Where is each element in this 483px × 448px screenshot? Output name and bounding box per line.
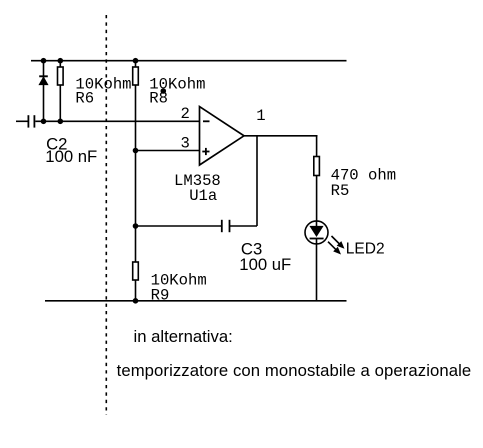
resistor R9: [133, 262, 139, 301]
wire R5 branch vertical: [316, 136, 318, 157]
svg-text:R6: R6: [75, 90, 94, 108]
resistor R6: [58, 61, 64, 122]
wire C2 lead: [16, 120, 28, 122]
svg-text:1: 1: [256, 107, 265, 125]
LED arrows: [328, 236, 345, 255]
diode D1: [39, 61, 48, 122]
svg-text:100 uF: 100 uF: [239, 255, 291, 274]
svg-text:2: 2: [181, 105, 190, 123]
wire feedback vertical: [256, 136, 258, 226]
resistor R8: [133, 61, 139, 262]
svg-text:R5: R5: [331, 182, 350, 200]
svg-text:100 nF: 100 nF: [45, 147, 97, 166]
svg-text:U1a: U1a: [189, 187, 217, 205]
svg-text:in alternativa:: in alternativa:: [134, 327, 233, 346]
svg-text:temporizzatore con monostabile: temporizzatore con monostabile a operazi…: [117, 361, 472, 380]
LED LED2: [305, 221, 328, 244]
wire op-amp output: [244, 135, 318, 137]
wire pin2 line: [35, 120, 199, 122]
svg-text:LED2: LED2: [346, 240, 385, 257]
junction dot C3 node: [133, 223, 139, 229]
junction dot R8 top: [133, 58, 139, 64]
wire LED to bottom rail: [316, 244, 318, 301]
junction dot diode top: [41, 58, 47, 64]
stray junction dot on R8 label: [161, 88, 167, 94]
capacitor C2: [28, 115, 34, 127]
junction dot pin3: [133, 148, 139, 154]
svg-text:R9: R9: [151, 286, 170, 304]
wire C3 to node: [136, 225, 222, 227]
junction dot R6 top: [58, 58, 64, 64]
junction dot bottom rail: [133, 298, 139, 304]
resistor R5: [314, 157, 320, 222]
op-amp U1a triangle: [200, 107, 245, 165]
junction dot R6 bottom: [58, 119, 64, 125]
capacitor C3: [222, 220, 230, 232]
junction dot diode bottom: [41, 119, 47, 125]
dashed separator line: [105, 15, 107, 415]
wire feedback to C3: [230, 225, 257, 227]
wire top rail: [31, 60, 347, 62]
wire pin3 line: [136, 150, 200, 152]
wire bottom rail: [45, 300, 347, 302]
